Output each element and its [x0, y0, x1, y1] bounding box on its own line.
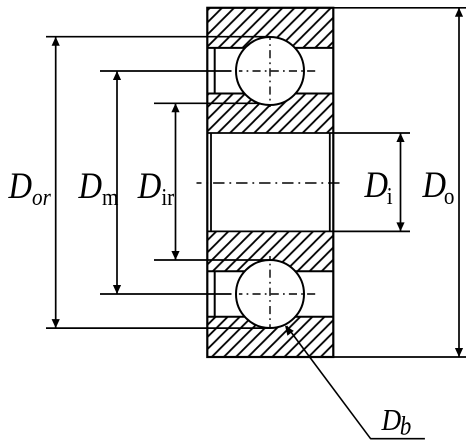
ball top horizontal centerline [239, 70, 316, 72]
inner ring bottom band (hatched) [207, 231, 333, 271]
ball bottom horizontal centerline [239, 293, 316, 295]
D_b leader line [287, 326, 371, 439]
dimension line D_i [400, 133, 402, 231]
svg-text:Dir: Dir [137, 165, 175, 210]
D_m bottom extension line [100, 293, 232, 295]
svg-text:Di: Di [364, 164, 393, 209]
bore wall left [210, 133, 212, 231]
D_o bottom extension line [333, 356, 466, 358]
left face line top [214, 48, 216, 94]
ball top vertical centerline [269, 37, 271, 108]
svg-text:Dm: Dm [78, 165, 119, 210]
outer ring top band (hatched) [207, 8, 333, 48]
outer ring bottom shoulder line [207, 316, 333, 318]
dimension line D_ir [175, 103, 177, 260]
bore bottom line + Di bottom extension [207, 230, 410, 232]
D_m top extension line [100, 70, 232, 72]
ball top [236, 37, 304, 105]
D_or bottom extension line [46, 327, 270, 329]
main axis centerline [197, 182, 344, 184]
dimension line D_or [55, 37, 57, 328]
D_ir top extension line [154, 102, 270, 104]
inner ring top band (hatched) [207, 94, 333, 134]
inner ring bottom shoulder line [207, 270, 333, 272]
bearing outline [207, 8, 333, 357]
left face line bottom [214, 271, 216, 317]
ball bottom [236, 260, 304, 328]
D_or top extension line [46, 36, 270, 38]
bore top line + Di top extension [207, 132, 410, 134]
dimension line D_m [116, 71, 118, 294]
bore wall right [329, 133, 331, 231]
D_ir bottom extension line [154, 259, 270, 261]
svg-text:Dor: Dor [8, 165, 51, 210]
inner ring top shoulder line [207, 93, 333, 95]
svg-text:Db: Db [381, 403, 412, 440]
outer ring bottom band (hatched) [207, 317, 333, 357]
svg-text:Do: Do [422, 164, 455, 209]
ball bottom vertical centerline [269, 256, 271, 327]
D_o top extension line [333, 7, 466, 9]
outer ring top shoulder line [207, 47, 333, 49]
dimension line D_o [458, 8, 460, 357]
